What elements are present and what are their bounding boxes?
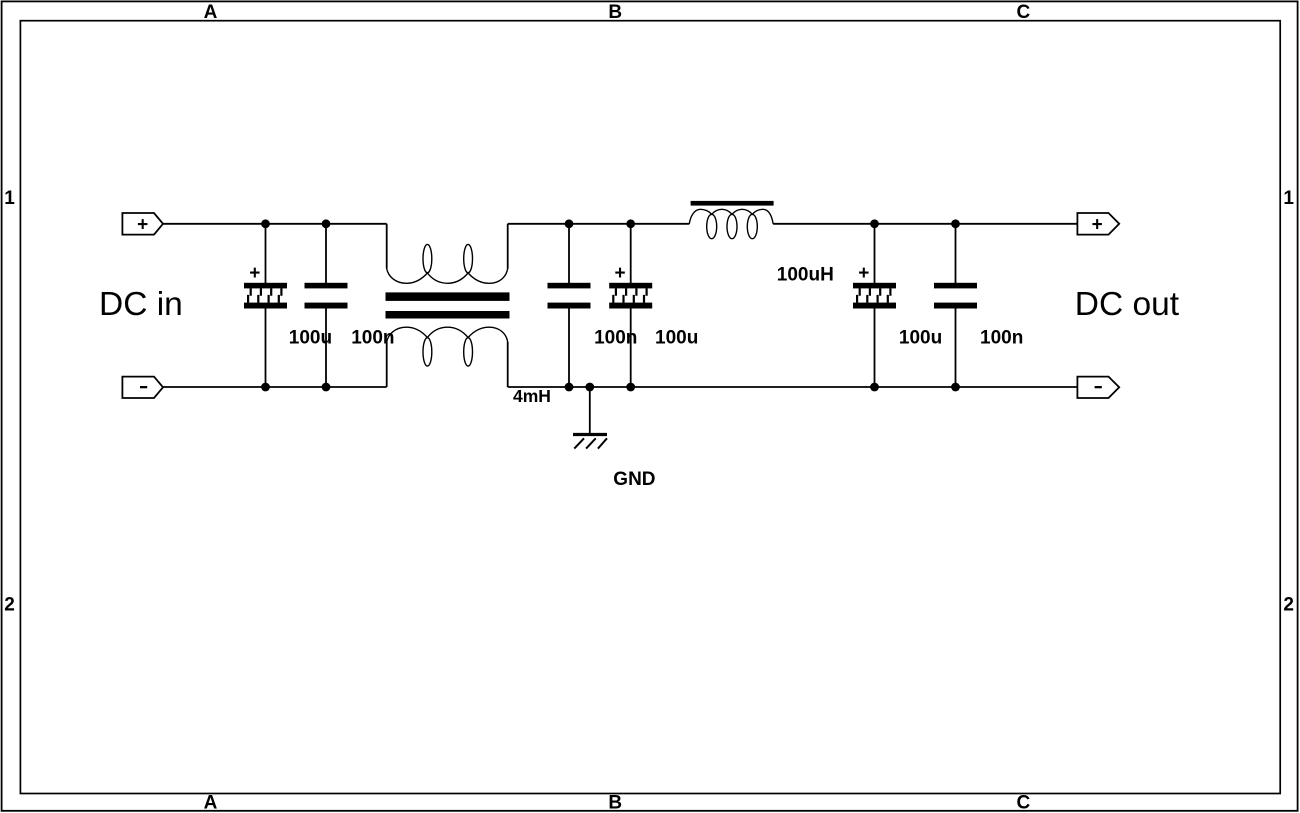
svg-text:+: + — [1092, 214, 1103, 235]
svg-text:100n: 100n — [351, 328, 394, 349]
junction bottom C1 — [261, 383, 270, 392]
junction top C6 — [951, 219, 960, 228]
wire C2 vertical — [325, 224, 327, 387]
svg-text:1: 1 — [4, 188, 15, 209]
capacitor C3 100n — [548, 283, 591, 309]
svg-text:C: C — [1017, 2, 1031, 23]
wire C4 vertical — [630, 224, 632, 387]
wire C3 vertical — [568, 224, 570, 387]
terminal In+ — [122, 213, 163, 235]
svg-text:+: + — [614, 263, 625, 284]
svg-text:100u: 100u — [655, 328, 698, 349]
svg-text:+: + — [858, 263, 869, 284]
svg-text:A: A — [204, 792, 218, 813]
svg-text:2: 2 — [1283, 595, 1294, 616]
inductor L1 core bar — [691, 201, 774, 206]
choke Tr1 core bars — [386, 292, 510, 318]
wire choke top-right — [507, 224, 509, 269]
wire choke bottom-right — [507, 342, 509, 387]
svg-text:DC in: DC in — [99, 286, 183, 323]
wire top rail left — [163, 223, 387, 225]
svg-text:100n: 100n — [980, 328, 1023, 349]
wire choke bottom-left — [386, 342, 388, 387]
capacitor C5 electrolytic 100u — [853, 263, 896, 308]
svg-text:C: C — [1017, 792, 1031, 813]
junction top C3 — [565, 219, 574, 228]
terminal Out- — [1077, 377, 1119, 398]
terminal Out+ — [1077, 213, 1119, 235]
svg-text:DC out: DC out — [1075, 286, 1180, 323]
wire C6 vertical — [955, 224, 957, 387]
svg-text:100uH: 100uH — [777, 265, 834, 286]
wire ground stub — [589, 387, 591, 434]
svg-text:1: 1 — [1283, 188, 1294, 209]
junction bottom C4 — [626, 383, 635, 392]
junction ground — [585, 383, 594, 392]
svg-text:GND: GND — [613, 469, 655, 490]
wire bottom rail left — [163, 386, 387, 388]
inductor L1 100uH coil — [689, 209, 773, 238]
junction top C5 — [870, 219, 879, 228]
choke Tr1 top coil — [387, 244, 508, 283]
junction bottom C2 — [322, 383, 331, 392]
wire C5 vertical — [874, 224, 876, 387]
junction top C1 — [261, 219, 270, 228]
svg-text:2: 2 — [4, 595, 15, 616]
capacitor C1 electrolytic 100u — [244, 263, 287, 308]
ground symbol — [573, 435, 607, 449]
svg-text:B: B — [608, 2, 622, 23]
svg-text:100u: 100u — [899, 328, 942, 349]
svg-text:+: + — [249, 263, 260, 284]
junction bottom C5 — [870, 383, 879, 392]
junction bottom C6 — [951, 383, 960, 392]
svg-text:+: + — [137, 214, 148, 235]
wire choke top-left — [386, 224, 388, 269]
terminal In- — [122, 377, 163, 398]
wire top rail right — [773, 223, 1077, 225]
capacitor C6 100n — [934, 283, 977, 309]
capacitor C4 electrolytic 100u — [609, 263, 652, 308]
svg-text:100n: 100n — [594, 328, 637, 349]
svg-text:A: A — [204, 2, 218, 23]
svg-text:100u: 100u — [289, 328, 332, 349]
wire C1 vertical — [265, 224, 267, 387]
junction bottom C3 — [565, 383, 574, 392]
junction top C4 — [626, 219, 635, 228]
junction top C2 — [322, 219, 331, 228]
svg-text:4mH: 4mH — [513, 386, 551, 406]
svg-text:B: B — [608, 792, 622, 813]
capacitor C2 100n — [305, 283, 348, 309]
wire bottom rail right — [508, 386, 1078, 388]
choke Tr1 bottom coil — [387, 327, 508, 366]
wire top rail middle — [508, 223, 690, 225]
